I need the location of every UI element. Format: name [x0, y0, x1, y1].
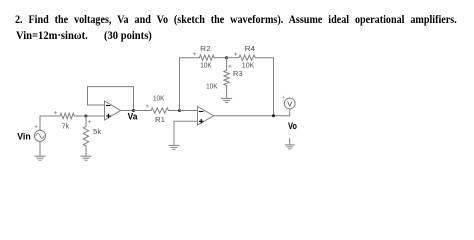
svg-text:Vo: Vo [288, 121, 297, 132]
ground below 5k [81, 156, 91, 160]
resistor R6 5k vertical [85, 116, 87, 127]
wire node B up to feedback net [180, 58, 200, 111]
wire Va to R1 [134, 110, 152, 112]
polarity tick of R2 [193, 53, 195, 55]
wire up to voltmeter [289, 109, 291, 116]
svg-text:Vin: Vin [17, 132, 31, 143]
svg-text:R3: R3 [233, 69, 243, 78]
node Va junction [132, 109, 135, 112]
ground below Vin [35, 156, 45, 160]
svg-text:10K: 10K [242, 60, 255, 69]
polarity tick of Vin [35, 125, 37, 127]
node D junction [272, 114, 275, 117]
polarity tick of R4 [234, 53, 236, 55]
wire node A to op-amp U1 plus input [86, 115, 105, 117]
resistor R3 10K vertical [226, 58, 228, 71]
svg-text:R4: R4 [245, 44, 256, 53]
wire 7k to node A [74, 115, 86, 117]
wire Vin bottom to ground [39, 141, 41, 155]
resistor R4 10K [239, 55, 255, 60]
svg-text:10K: 10K [200, 60, 211, 69]
polarity tick of 5k [88, 121, 90, 123]
polarity tick of R3 [229, 65, 231, 67]
resistor R1 10K [151, 108, 169, 113]
svg-text:7k: 7k [62, 121, 70, 130]
resistor R5 7k [60, 113, 74, 118]
wire U2 output to voltmeter [214, 115, 290, 117]
svg-text:R1: R1 [155, 115, 165, 124]
wire node C to R4 [227, 57, 239, 59]
op-amp U1 [105, 101, 121, 120]
svg-text:Va: Va [128, 112, 138, 123]
svg-text:5k: 5k [93, 127, 101, 136]
wire R2 to node C [214, 57, 226, 59]
wire node B to op-amp U2 minus input [180, 110, 198, 112]
node A junction [85, 115, 88, 118]
ground below Vo [285, 138, 294, 148]
polarity tick of R1 [146, 105, 148, 107]
ground below R3 [222, 98, 232, 102]
wire U1 feedback loop output to minus input [88, 87, 134, 111]
node B junction [178, 109, 181, 112]
svg-text:R2: R2 [200, 44, 211, 53]
svg-text:V: V [287, 99, 292, 108]
polarity tick of 7k [54, 111, 56, 113]
wire U2 plus input to ground [174, 121, 198, 145]
wire R4 down to output node D [255, 58, 273, 116]
source Vin V1 [34, 130, 45, 141]
op-amp U2 [198, 107, 214, 126]
resistor R2 10K [199, 55, 214, 60]
svg-text:10K: 10K [153, 93, 164, 102]
node C junction [225, 56, 228, 59]
svg-text:10K: 10K [206, 82, 217, 91]
wire Vin top to 7k [40, 116, 60, 130]
wire R1 to node B [169, 110, 180, 112]
wire U1 output to node Va [121, 110, 134, 112]
voltmeter V [284, 98, 295, 109]
ground below U2 plus input [169, 145, 179, 149]
polarity tick of voltmeter [282, 96, 284, 98]
